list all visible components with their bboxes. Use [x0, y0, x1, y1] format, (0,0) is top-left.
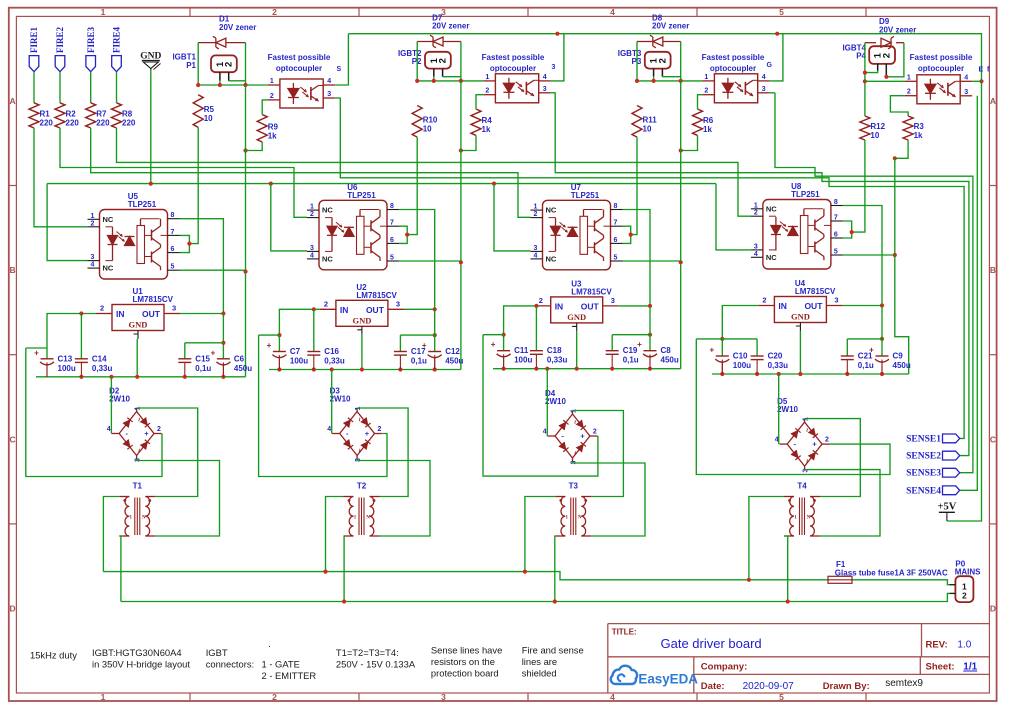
svg-text:220: 220 — [122, 118, 136, 127]
wire C12 chain — [434, 309, 436, 351]
svg-text:C12: C12 — [445, 347, 460, 356]
svg-text:3: 3 — [327, 91, 331, 98]
svg-text:GND: GND — [352, 315, 371, 325]
svg-text:220: 220 — [96, 118, 110, 127]
wire D9 right leg — [886, 43, 904, 77]
svg-text:NC: NC — [103, 264, 114, 273]
junction — [342, 599, 346, 603]
wire — [662, 76, 680, 78]
svg-text:Fire and sense: Fire and sense — [522, 645, 584, 656]
wire U1 GND pin — [136, 339, 138, 377]
junction — [243, 269, 247, 273]
wire R5 chain down to U5 — [189, 127, 198, 243]
wire U8 pin7-6 loop — [843, 221, 852, 238]
resistor R11 (gate) — [632, 106, 642, 138]
IC U5 TLP251 — [100, 210, 168, 280]
wire U1 OUT — [180, 313, 223, 315]
svg-text:NC: NC — [546, 254, 557, 263]
svg-text:5: 5 — [779, 7, 784, 17]
wire D4 ac2 loop to T3 — [573, 462, 646, 537]
wire D5 ac2 loop to T4 — [805, 470, 880, 536]
junction — [187, 242, 191, 246]
wire U6 pin8 to +15V — [399, 210, 435, 310]
svg-text:REV:: REV: — [926, 640, 948, 651]
wire FIRE4 bus — [117, 128, 751, 216]
wire C15 tie — [185, 342, 224, 344]
svg-text:8: 8 — [834, 199, 838, 206]
svg-text:NC: NC — [322, 254, 333, 263]
svg-text:4: 4 — [754, 251, 758, 258]
wire — [59, 72, 61, 103]
svg-text:1: 1 — [704, 74, 708, 81]
svg-text:2W10: 2W10 — [777, 405, 798, 414]
svg-text:Fastest possible: Fastest possible — [910, 53, 973, 62]
svg-text:Gate driver board: Gate driver board — [661, 636, 762, 651]
wire channel2 local gnd chain — [460, 81, 462, 370]
wire mains line 1 — [103, 572, 828, 580]
wire U5 pin7-6 loop — [180, 235, 190, 252]
svg-text:B: B — [10, 265, 16, 275]
svg-text:3: 3 — [172, 304, 176, 313]
wire D4 ac1 to T3 — [573, 411, 624, 497]
IC U7 TLP251 — [543, 200, 611, 269]
svg-text:G: G — [767, 62, 773, 69]
wire — [653, 76, 655, 81]
svg-text:C9: C9 — [893, 352, 904, 361]
resistor R5 (gate) — [193, 95, 203, 128]
svg-text:FIRE3: FIRE3 — [86, 26, 96, 53]
wire channel2 0V rail — [269, 369, 461, 371]
svg-text:OUT: OUT — [142, 309, 161, 319]
svg-text:R4: R4 — [482, 116, 493, 125]
capacitor C7 — [278, 355, 280, 369]
svg-text:LM7815CV: LM7815CV — [571, 287, 612, 296]
svg-text:20V zener: 20V zener — [652, 22, 689, 31]
svg-text:4: 4 — [327, 78, 331, 85]
wire U3 OUT — [619, 305, 650, 307]
svg-text:220: 220 — [40, 118, 54, 127]
svg-text:C: C — [990, 434, 996, 444]
svg-text:N: N — [807, 516, 811, 521]
svg-text:4: 4 — [91, 262, 95, 269]
wire C14 drop — [80, 314, 82, 359]
connector P4 — [869, 46, 895, 64]
wire C10/C20 tie — [696, 338, 757, 340]
svg-text:6: 6 — [171, 246, 175, 253]
wire bridge D5 + feed — [696, 339, 890, 475]
svg-text:0,33u: 0,33u — [324, 357, 345, 366]
net flag SENSE4 — [943, 486, 960, 495]
svg-text:1: 1 — [101, 692, 106, 702]
svg-text:OUT: OUT — [581, 301, 600, 311]
wire U6 pin7-6 loop — [399, 226, 407, 243]
wire channel1 local gnd chain — [245, 85, 247, 377]
svg-text:100u: 100u — [514, 356, 532, 365]
svg-text:3: 3 — [552, 64, 556, 71]
svg-text:6: 6 — [614, 237, 618, 244]
svg-text:shielded: shielded — [522, 668, 557, 679]
svg-text:1 - GATE: 1 - GATE — [262, 659, 300, 670]
wire T4 primary bottom to mains — [784, 536, 788, 602]
svg-text:3: 3 — [964, 89, 968, 96]
svg-text:1: 1 — [754, 202, 758, 209]
wire U2 IN — [279, 309, 320, 335]
wire channel4 gate chain — [864, 43, 866, 116]
wire zener right leg — [680, 42, 682, 81]
svg-text:connectors:: connectors: — [206, 659, 254, 670]
svg-text:2020-09-07: 2020-09-07 — [743, 681, 795, 692]
wire U7 pin7-6 loop — [623, 226, 631, 243]
svg-text:~: ~ — [355, 417, 362, 421]
svg-text:Fastest possible: Fastest possible — [702, 53, 765, 62]
wire C17 tie — [400, 334, 434, 336]
wire U3 GND pin — [576, 331, 578, 368]
wire channel4 0V rail — [712, 373, 909, 375]
svg-text:N: N — [366, 516, 370, 521]
svg-text:5: 5 — [779, 692, 784, 702]
junction — [323, 570, 327, 574]
svg-text:TLP251: TLP251 — [571, 191, 600, 200]
svg-text:+: + — [637, 340, 642, 349]
svg-text:0,1u: 0,1u — [623, 356, 639, 365]
svg-text:optocoupler: optocoupler — [490, 64, 536, 73]
wire channel1 0V rail — [36, 376, 246, 378]
svg-text:100u: 100u — [58, 364, 76, 373]
svg-text:3: 3 — [91, 254, 95, 261]
IC U8 TLP251 — [763, 200, 831, 270]
junction — [720, 337, 724, 341]
svg-text:4: 4 — [543, 74, 547, 81]
wire GND bus — [47, 183, 716, 185]
wire U8 pin8 to +15V — [843, 206, 882, 306]
svg-text:2W10: 2W10 — [545, 397, 566, 406]
junction — [635, 79, 639, 83]
svg-text:A: A — [990, 96, 996, 106]
svg-text:8: 8 — [614, 203, 618, 210]
junction — [720, 372, 724, 376]
svg-text:3: 3 — [441, 692, 446, 702]
svg-text:SENSE2: SENSE2 — [906, 452, 941, 462]
svg-text:1k: 1k — [914, 131, 923, 140]
junction — [405, 233, 409, 237]
wire C21 drop — [846, 339, 848, 356]
svg-text:TLP251: TLP251 — [791, 190, 820, 199]
svg-text:5: 5 — [614, 255, 618, 262]
resistor R8 — [112, 103, 122, 128]
wire D3 minus to rail — [331, 370, 333, 434]
svg-text:1k: 1k — [268, 131, 277, 140]
svg-text:FIRE2: FIRE2 — [55, 26, 65, 53]
svg-text:450u: 450u — [893, 361, 911, 370]
capacitor C12 — [434, 355, 436, 369]
svg-text:4: 4 — [310, 252, 314, 259]
svg-text:4: 4 — [610, 7, 615, 17]
wire opto pin4 to +5V bus — [551, 34, 564, 81]
transformer T1 — [125, 497, 129, 537]
svg-text:+: + — [422, 341, 427, 350]
svg-text:2: 2 — [825, 437, 829, 444]
svg-text:OUT: OUT — [804, 301, 823, 311]
svg-text:T4: T4 — [797, 482, 807, 491]
connector P2 — [425, 52, 451, 69]
wire C17 drop — [399, 335, 401, 351]
svg-text:2: 2 — [962, 591, 967, 601]
svg-text:+: + — [144, 429, 149, 438]
wire C19 tie — [612, 334, 650, 336]
svg-text:protection board: protection board — [431, 668, 499, 679]
svg-text:T3: T3 — [569, 482, 579, 491]
capacitor C14 — [80, 362, 82, 376]
svg-text:lines are: lines are — [522, 656, 557, 667]
svg-text:2: 2 — [310, 211, 314, 218]
wire channel3 0V rail — [493, 368, 681, 370]
svg-text:4: 4 — [762, 74, 766, 81]
svg-text:IN: IN — [340, 305, 349, 315]
wire U4 IN — [722, 306, 758, 339]
svg-text:3: 3 — [762, 86, 766, 93]
junction — [459, 148, 463, 152]
svg-text:TITLE:: TITLE: — [612, 628, 637, 637]
wire C16 drop — [313, 309, 315, 351]
svg-text:D: D — [990, 604, 996, 614]
wire T3 primary bottom to mains — [554, 536, 557, 602]
resistor R2 — [55, 103, 65, 128]
svg-text:5: 5 — [834, 249, 838, 256]
svg-text:Sheet:: Sheet: — [926, 662, 955, 673]
svg-text:MAINS: MAINS — [955, 568, 981, 577]
wire — [219, 81, 221, 86]
svg-text:0,33u: 0,33u — [547, 356, 568, 365]
wire bridge D4 + feed — [483, 335, 598, 476]
svg-text:FIRE1: FIRE1 — [29, 26, 39, 53]
svg-text:optocoupler: optocoupler — [710, 64, 756, 73]
svg-text:Sense lines have: Sense lines have — [431, 645, 502, 656]
wire C6 chain — [222, 314, 224, 359]
wire opto pin3 out — [770, 92, 775, 94]
wire D2 ac2 loop to T1 — [137, 459, 220, 536]
IC U1 LM7815CV — [112, 305, 164, 331]
wire C7 top feed — [259, 334, 280, 336]
wire U6 pin5 to gnd chain — [399, 260, 461, 262]
capacitor C16 — [313, 355, 315, 369]
wire — [116, 72, 118, 103]
svg-text:SENSE3: SENSE3 — [906, 469, 941, 479]
svg-text:~: ~ — [803, 459, 810, 463]
svg-text:E: E — [979, 67, 984, 74]
connector P3 — [645, 52, 671, 69]
wire +5V top bus — [348, 34, 981, 521]
junction — [79, 311, 83, 315]
wire C11 drop — [503, 335, 505, 351]
svg-text:+: + — [869, 346, 874, 355]
wire bridge D2 + feed — [26, 348, 162, 477]
svg-text:IN: IN — [116, 309, 125, 319]
wire — [229, 80, 246, 82]
svg-text:0,1u: 0,1u — [195, 364, 211, 373]
wire D5 minus to rail — [778, 374, 780, 444]
svg-text:+: + — [580, 432, 585, 441]
wire zener left leg — [197, 43, 199, 85]
svg-text:4: 4 — [107, 426, 111, 433]
svg-text:3: 3 — [310, 245, 314, 252]
wire zener left leg — [636, 42, 638, 81]
wire zener right leg — [460, 42, 462, 81]
junction — [555, 32, 559, 36]
wire bridge D3 + feed — [259, 335, 387, 476]
svg-text:0,1u: 0,1u — [411, 357, 427, 366]
svg-text:1k: 1k — [482, 125, 491, 134]
EasyEDA logo — [611, 666, 637, 684]
svg-text:1: 1 — [310, 204, 314, 211]
svg-text:T1=T2=T3=T4:: T1=T2=T3=T4: — [336, 647, 399, 658]
IC U2 LM7815CV — [336, 300, 388, 326]
junction — [277, 367, 281, 371]
wire opto4 pin4 to +5V — [972, 80, 981, 82]
wire C20 drop — [756, 339, 758, 356]
svg-text:250V - 15V 0.133A: 250V - 15V 0.133A — [336, 659, 416, 670]
svg-text:6: 6 — [390, 237, 394, 244]
resistor R9 — [257, 115, 267, 143]
wire T1 primary top to mains — [103, 497, 119, 572]
wire node row — [865, 80, 905, 82]
svg-text:2: 2 — [754, 210, 758, 217]
svg-text:semtex9: semtex9 — [885, 678, 923, 689]
svg-text:6: 6 — [834, 232, 838, 239]
svg-text:EasyEDA: EasyEDA — [638, 672, 698, 687]
svg-text:2: 2 — [100, 304, 104, 313]
junction — [196, 83, 200, 87]
junction — [221, 341, 225, 345]
svg-text:20V zener: 20V zener — [879, 25, 916, 34]
svg-text:10: 10 — [204, 114, 213, 123]
svg-text:N: N — [142, 516, 146, 521]
wire channel3 local gnd chain — [680, 81, 682, 369]
svg-text:2: 2 — [593, 429, 597, 436]
wire U2 GND pin — [361, 335, 363, 370]
svg-text:C18: C18 — [547, 346, 562, 355]
svg-text:IN: IN — [778, 301, 787, 311]
wire zener left leg — [416, 42, 418, 81]
svg-text:+: + — [34, 348, 39, 357]
junction — [433, 307, 437, 311]
svg-text:Fastest possible: Fastest possible — [268, 53, 331, 62]
zener diode D8 — [637, 41, 653, 43]
svg-text:100u: 100u — [733, 361, 751, 370]
svg-text:NC: NC — [322, 206, 333, 215]
svg-text:2: 2 — [272, 692, 277, 702]
svg-text:20V zener: 20V zener — [219, 23, 256, 32]
svg-text:SENSE1: SENSE1 — [906, 434, 941, 444]
svg-text:2: 2 — [438, 58, 449, 63]
svg-text:FIRE4: FIRE4 — [112, 26, 122, 53]
wire P4 pin1 link — [865, 71, 878, 73]
capacitor C19 — [611, 354, 613, 368]
wire GND bus to U6 pin3 — [271, 184, 307, 251]
wire — [433, 76, 435, 81]
svg-text:IGBT: IGBT — [206, 647, 228, 658]
svg-text:P1: P1 — [186, 61, 196, 70]
capacitor C10 — [721, 360, 723, 374]
optocoupler (fastest possible) — [280, 79, 323, 108]
svg-text:C19: C19 — [623, 346, 638, 355]
junction — [893, 156, 897, 160]
wire GND bus to U8 pin3 — [716, 184, 751, 250]
svg-text:2: 2 — [324, 299, 328, 308]
junction — [893, 253, 897, 257]
svg-text:Drawn By:: Drawn By: — [823, 681, 870, 692]
svg-text:GND: GND — [567, 312, 586, 322]
svg-text:2: 2 — [704, 88, 708, 95]
svg-text:~: ~ — [355, 448, 362, 452]
svg-text:C: C — [10, 434, 16, 444]
svg-text:2: 2 — [762, 296, 766, 305]
svg-text:C16: C16 — [324, 347, 339, 356]
wire R12 chain to U8 — [852, 140, 865, 232]
svg-text:2: 2 — [485, 88, 489, 95]
svg-text:450u: 450u — [661, 356, 679, 365]
net flag SENSE2 — [943, 451, 960, 460]
wire — [33, 72, 35, 103]
wire C13 top feed — [26, 347, 47, 349]
transformer T3 — [561, 497, 565, 537]
junction — [459, 260, 463, 264]
svg-text:1/1: 1/1 — [963, 662, 977, 673]
svg-text:220: 220 — [66, 118, 80, 127]
svg-text:450u: 450u — [234, 364, 252, 373]
junction — [149, 182, 153, 186]
svg-text:0,33u: 0,33u — [768, 361, 789, 370]
wire SENSE1 run — [340, 98, 964, 439]
resistor R1 — [29, 103, 39, 128]
zener diode D9 — [865, 42, 876, 44]
resistor R12 — [860, 116, 870, 140]
wire U7 pin5 to gnd chain — [623, 260, 681, 262]
svg-text:optocoupler: optocoupler — [276, 64, 322, 73]
svg-text:.: . — [268, 638, 271, 649]
svg-text:3: 3 — [834, 296, 838, 305]
svg-text:~: ~ — [571, 420, 578, 424]
svg-text:2: 2 — [272, 7, 277, 17]
svg-text:+5V: +5V — [937, 502, 956, 513]
svg-text:0,33u: 0,33u — [92, 364, 113, 373]
svg-text:R6: R6 — [703, 116, 714, 125]
junction — [679, 260, 683, 264]
svg-text:R7: R7 — [96, 109, 107, 118]
junction — [312, 307, 316, 311]
wire opto pin4 to +5V bus — [770, 34, 783, 81]
svg-text:2: 2 — [270, 93, 274, 100]
svg-text:~: ~ — [135, 448, 142, 452]
wire C18 drop — [535, 306, 537, 351]
svg-text:~: ~ — [571, 451, 578, 455]
svg-text:GND: GND — [129, 320, 148, 330]
wire node row — [198, 84, 268, 86]
wire zener right leg — [245, 43, 247, 85]
svg-text:IGBT:HGTG30N60A4: IGBT:HGTG30N60A4 — [92, 647, 182, 658]
wire SENSE4 run — [960, 96, 978, 491]
resistor R6 — [693, 109, 703, 135]
capacitor C18 — [535, 354, 537, 368]
junction — [415, 79, 419, 83]
svg-text:15kHz duty: 15kHz duty — [30, 650, 77, 661]
capacitor C9 — [881, 360, 883, 374]
svg-text:GND: GND — [791, 312, 810, 322]
svg-text:2: 2 — [657, 58, 668, 63]
zener diode D7 — [417, 41, 433, 43]
svg-text:R3: R3 — [914, 122, 925, 131]
wire D3 ac1 to T2 — [357, 408, 408, 497]
wire opto pin2 to R4 — [476, 95, 483, 109]
